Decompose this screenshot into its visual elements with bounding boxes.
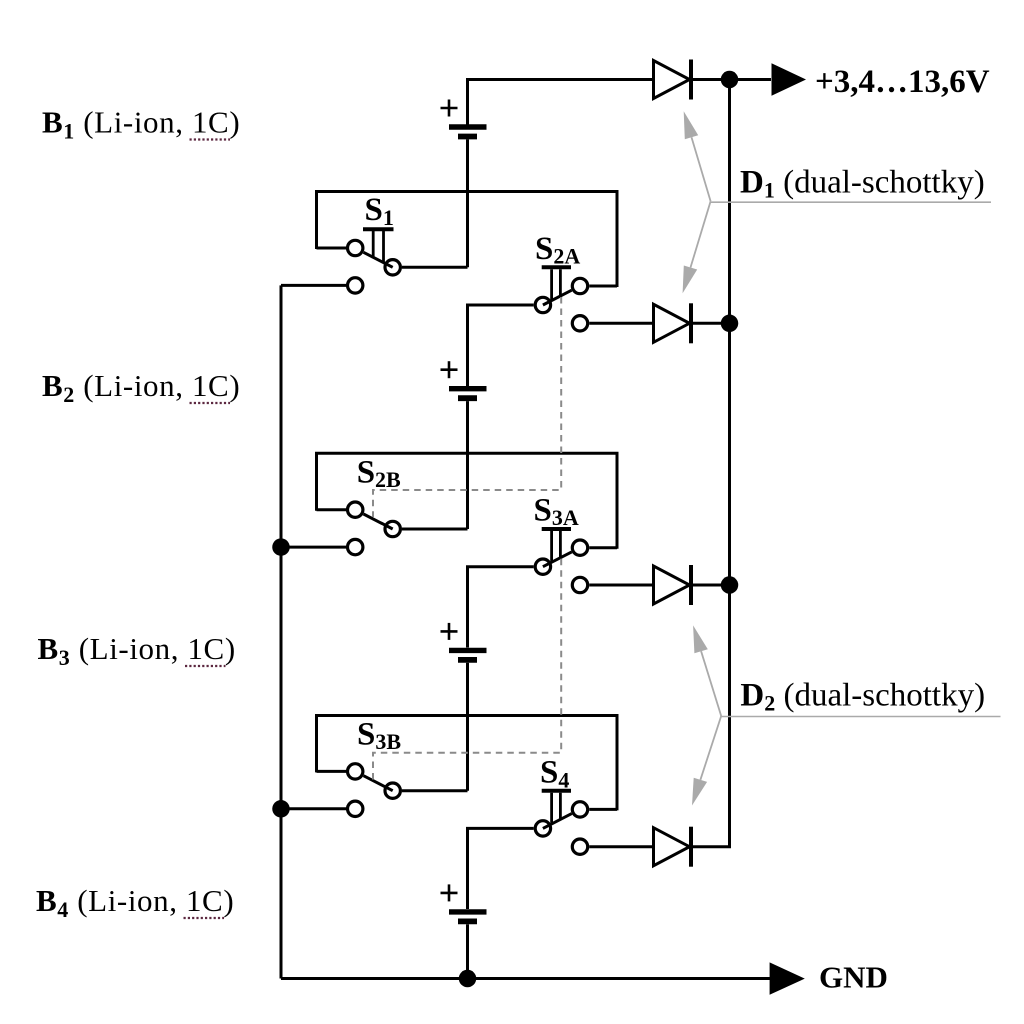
svg-text:D2 (dual-schottky): D2 (dual-schottky) <box>740 678 985 716</box>
diode D2b (lower element of D2) <box>654 827 692 867</box>
node: S2B lower throw on left bus <box>272 538 290 556</box>
diode D1b (lower element of D1) <box>654 303 692 343</box>
wire: diode D2a to right bus <box>691 584 730 587</box>
wire: S3A lower throw to diode D2a <box>589 584 654 587</box>
battery B2 <box>441 361 487 398</box>
svg-text:D1 (dual-schottky): D1 (dual-schottky) <box>740 165 985 203</box>
wire: B4- down to GND rail <box>466 924 469 978</box>
wire: B1+ to diode D1a (top output wire) <box>468 78 655 81</box>
wire: diode D2b to right bus corner <box>691 845 731 848</box>
wire: S3A common to B3+ <box>468 567 534 648</box>
D1 annotation: leader line <box>711 201 991 203</box>
D2 annotation: leader line <box>721 716 1000 718</box>
switch S3B <box>281 764 468 817</box>
wire: S4 lower throw to diode D2b <box>589 845 654 848</box>
node: D2a junction on right bus <box>721 576 739 594</box>
battery B1 <box>441 78 487 137</box>
wire: S2A common to B2+ <box>468 305 534 386</box>
diode D2a (upper element of D2) <box>654 565 692 605</box>
wire: GND rail horizontal <box>281 977 771 980</box>
switch S2B <box>281 502 468 555</box>
D1 annotation: arrow to D1b <box>683 201 711 293</box>
switch S3A <box>535 529 617 593</box>
GND arrow <box>770 962 805 994</box>
node: S3B lower throw on left bus <box>272 800 290 818</box>
battery B3 <box>441 623 487 660</box>
D2 annotation: arrow to D2a <box>693 625 721 716</box>
svg-text:GND: GND <box>819 959 888 994</box>
wire: link box 2 (S2B upper throw to S3A upper throw) <box>317 453 618 549</box>
underline of 1C in B2 label <box>190 402 231 404</box>
svg-text:+3,4…13,6V: +3,4…13,6V <box>815 64 990 100</box>
wire: S4 common to B4+ <box>468 828 534 909</box>
wire: link box 1 (S1 upper throw to S2A upper throw) <box>317 192 618 288</box>
wire: B3- down to S3B common <box>466 663 469 791</box>
diode D1a (upper element of D1) <box>654 60 692 100</box>
dashed gang link S3A-S3B <box>373 559 561 780</box>
node: D1b junction on right bus <box>721 315 739 333</box>
battery B4 <box>441 884 487 921</box>
node: B4- junction on GND rail <box>459 970 477 988</box>
node: output junction on right bus <box>721 71 739 89</box>
wire: left bus (GND rail vertical) <box>280 285 283 978</box>
underline of 1C in B4 label <box>184 917 225 919</box>
switch S1 <box>281 229 468 293</box>
underline of 1C in B3 label <box>185 665 226 667</box>
output arrow <box>772 63 807 95</box>
switch S2A <box>535 267 617 331</box>
underline of 1C in B1 label <box>190 138 231 140</box>
wire: B2- down to S2B common <box>466 401 469 529</box>
D2 annotation: arrow to D2b <box>692 716 721 806</box>
wire: B1- down to S1 common <box>466 139 469 267</box>
wire: diode D1b to right bus <box>691 322 730 325</box>
wire: right bus (output rail) <box>728 80 731 847</box>
switch S4 <box>535 791 617 855</box>
wire: link box 3 (S3B upper throw to S4 upper throw) <box>317 716 618 811</box>
wire: diode D1a cathode to output arrow <box>691 78 771 81</box>
D1 annotation: arrow to D1a <box>684 111 711 201</box>
wire: S2A lower throw to diode D1b <box>589 322 654 325</box>
dashed gang link S2A-S2B <box>373 297 561 517</box>
